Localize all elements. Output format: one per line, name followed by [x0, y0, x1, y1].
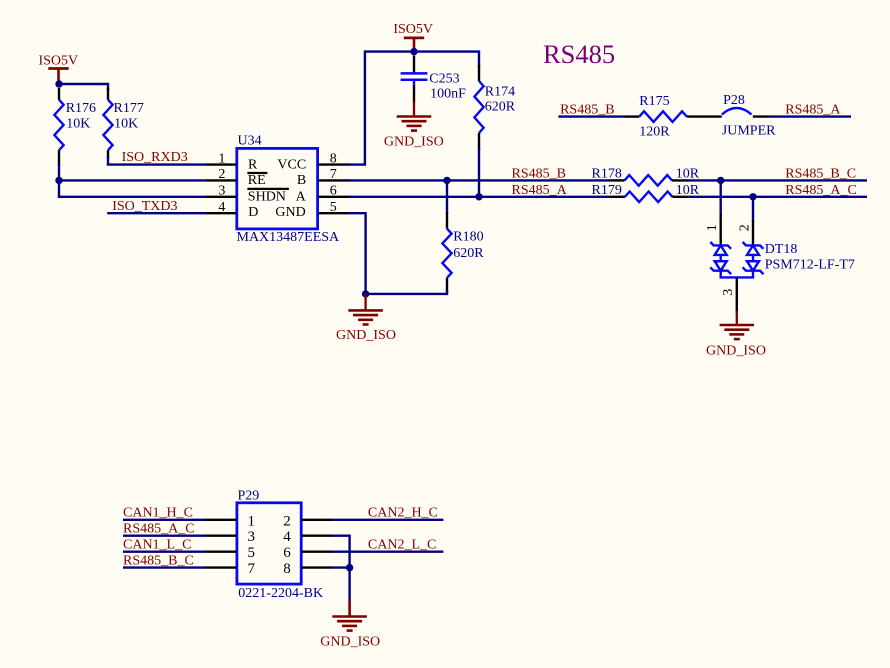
pin 7 (P29) — [206, 566, 237, 568]
wire ISO5V to R176/R177 — [59, 83, 108, 90]
TVS diode DT18 pin 3 lead — [736, 277, 738, 313]
svg-text:ISO5V: ISO5V — [38, 54, 78, 69]
svg-text:RS485: RS485 — [543, 39, 615, 69]
wire R174 down to RS485_A line — [478, 148, 480, 197]
svg-text:8: 8 — [283, 561, 291, 577]
svg-text:CAN2_L_C: CAN2_L_C — [368, 538, 436, 553]
TVS diode DT18 column B — [743, 242, 764, 249]
svg-text:6: 6 — [283, 545, 291, 561]
svg-text:10R: 10R — [676, 183, 700, 198]
svg-text:GND_ISO: GND_ISO — [336, 328, 396, 343]
svg-text:P29: P29 — [238, 489, 260, 504]
svg-text:VCC: VCC — [277, 157, 306, 172]
svg-text:A: A — [296, 189, 307, 204]
svg-text:3: 3 — [721, 289, 736, 296]
svg-text:R177: R177 — [114, 101, 144, 116]
svg-text:ISO_TXD3: ISO_TXD3 — [112, 199, 177, 214]
svg-text:10K: 10K — [114, 116, 138, 131]
svg-text:7: 7 — [330, 167, 337, 182]
svg-text:6: 6 — [330, 184, 337, 199]
TVS diode DT18 pin 2 lead — [752, 220, 754, 245]
wire P29 pin 6 to CAN2_L_C — [333, 551, 443, 553]
wire RS485_B_C to DT18 pin 1 — [720, 180, 722, 216]
svg-text:100nF: 100nF — [430, 86, 466, 101]
capacitor C253 — [401, 56, 428, 104]
svg-text:C253: C253 — [429, 72, 459, 87]
ground GND_ISO (under U34) — [336, 294, 396, 343]
svg-text:10K: 10K — [66, 116, 90, 131]
wire pin 6 RS485_A bus — [348, 196, 609, 198]
svg-text:3: 3 — [248, 529, 256, 545]
wire ISO_TXD3 to pin 4 — [107, 212, 205, 214]
svg-text:1: 1 — [218, 151, 225, 166]
svg-text:RS485_B: RS485_B — [512, 166, 566, 181]
svg-text:U34: U34 — [238, 134, 262, 149]
pin 5 (P29) — [206, 551, 237, 553]
wire junction down to pin 3 — [58, 180, 206, 196]
wire CAN1_H_C to P29 pin 1 — [123, 519, 206, 521]
pin 4 (P29) — [301, 535, 333, 537]
svg-text:ISO5V: ISO5V — [393, 22, 433, 37]
wire pin 5 to ground rail — [348, 212, 365, 294]
junction node at R176/R177 top — [55, 80, 62, 87]
svg-text:CAN2_H_C: CAN2_H_C — [368, 506, 438, 521]
svg-text:R174: R174 — [485, 85, 515, 100]
wire junction to pin 2 — [59, 179, 205, 181]
junction node R180 tap on RS485_B — [443, 177, 450, 184]
pin 8 — [318, 163, 350, 165]
svg-text:R178: R178 — [592, 166, 622, 181]
svg-text:RS485_B_C: RS485_B_C — [123, 553, 194, 568]
svg-text:5: 5 — [330, 200, 337, 215]
wire RS485_B to R180 — [446, 180, 448, 214]
resistor R180 — [442, 212, 451, 292]
wire P29 pin 4 to ground rail — [333, 535, 349, 602]
pin 2 — [205, 179, 236, 181]
pin 7 — [318, 179, 350, 181]
pin 6 — [318, 196, 350, 198]
resistor R177 — [103, 88, 112, 158]
svg-text:0221-2204-BK: 0221-2204-BK — [238, 586, 323, 601]
junction node DT18 pin1 tap — [717, 177, 724, 184]
jumper P28 — [722, 108, 769, 117]
junction node at pin 2 wire — [55, 177, 62, 184]
svg-text:GND: GND — [275, 205, 305, 220]
resistor R174 — [474, 65, 483, 150]
svg-text:R175: R175 — [639, 94, 669, 109]
wire RS485_A_C to P29 pin 3 — [123, 535, 206, 537]
resistor R176 — [54, 88, 63, 166]
svg-text:RS485_A_C: RS485_A_C — [123, 522, 195, 537]
svg-text:JUMPER: JUMPER — [722, 124, 776, 139]
svg-text:RS485_A: RS485_A — [785, 103, 841, 118]
junction node DT18 pin2 tap — [749, 193, 756, 200]
TVS diode DT18 bottom rail — [720, 271, 755, 278]
svg-text:GND_ISO: GND_ISO — [706, 344, 766, 359]
svg-text:SHDN: SHDN — [248, 189, 286, 204]
svg-text:8: 8 — [330, 151, 337, 166]
junction node ground rail — [362, 290, 369, 297]
svg-text:4: 4 — [283, 529, 291, 545]
wire R177 to pin 1 (ISO_RXD3) — [107, 156, 206, 165]
junction node P29 ground — [346, 564, 353, 571]
pin 3 (P29) — [206, 535, 237, 537]
wire P29 pin 8 to ground rail — [333, 566, 349, 568]
svg-text:R: R — [248, 157, 258, 172]
power port ISO5V (left) — [38, 54, 78, 83]
wire ISO5V rail to R174 — [414, 50, 479, 67]
wire R180 to ground rail — [366, 290, 449, 294]
svg-text:2: 2 — [218, 167, 225, 182]
resistor R179 — [609, 192, 688, 203]
svg-text:620R: 620R — [485, 99, 516, 114]
svg-text:10R: 10R — [676, 166, 700, 181]
wire RS485_B_C to P29 pin 7 — [123, 566, 206, 568]
TVS diode DT18 column A — [710, 242, 731, 249]
svg-text:2: 2 — [737, 224, 752, 231]
svg-text:ISO_RXD3: ISO_RXD3 — [122, 150, 188, 165]
svg-text:GND_ISO: GND_ISO — [384, 134, 444, 149]
svg-text:3: 3 — [218, 184, 225, 199]
overbar of SHDN — [247, 188, 289, 190]
svg-text:1: 1 — [248, 513, 256, 529]
svg-text:PSM712-LF-T7: PSM712-LF-T7 — [765, 257, 855, 272]
pin 4 — [205, 212, 236, 214]
junction node R174 tap on RS485_A — [475, 193, 482, 200]
wire R178 to RS485_B_C — [689, 179, 868, 181]
svg-text:R180: R180 — [453, 229, 483, 244]
pin 5 — [318, 212, 350, 214]
svg-text:GND_ISO: GND_ISO — [320, 634, 380, 649]
svg-text:DT18: DT18 — [765, 242, 798, 257]
wire RS485_B stub to R175 — [558, 115, 625, 117]
svg-text:P28: P28 — [723, 93, 745, 108]
ground GND_ISO (under C253) — [384, 101, 444, 149]
wire jumper to RS485_A stub — [769, 115, 851, 117]
svg-text:4: 4 — [218, 200, 225, 215]
wire R176 to pin 2 — [58, 164, 60, 180]
svg-text:CAN1_H_C: CAN1_H_C — [123, 506, 193, 521]
wire pin 7 RS485_B bus — [348, 179, 609, 181]
svg-text:RS485_B: RS485_B — [560, 103, 614, 118]
wire RS485_A_C to DT18 pin 2 — [752, 197, 754, 222]
svg-text:CAN1_L_C: CAN1_L_C — [123, 538, 191, 553]
pin 1 (P29) — [206, 519, 237, 521]
wire R179 to RS485_A_C — [689, 196, 867, 198]
pin 2 (P29) — [301, 519, 333, 521]
pin 1 — [205, 163, 236, 165]
wire ISO5V rail to pin 8 — [348, 50, 414, 164]
svg-text:RS485_A_C: RS485_A_C — [785, 183, 857, 198]
svg-text:MAX13487EESA: MAX13487EESA — [237, 230, 341, 245]
svg-text:120R: 120R — [639, 124, 670, 139]
ground GND_ISO (under DT18) — [706, 311, 766, 359]
resistor R175 — [625, 111, 722, 122]
pin 8 (P29) — [301, 566, 333, 568]
svg-text:R176: R176 — [66, 101, 96, 116]
pin 6 (P29) — [301, 551, 333, 553]
power port ISO5V (middle) — [393, 22, 433, 50]
TVS diode DT18 pin 1 lead — [720, 214, 722, 245]
pin 3 — [205, 196, 236, 198]
svg-text:1: 1 — [705, 224, 720, 231]
svg-text:5: 5 — [248, 545, 256, 561]
svg-text:7: 7 — [248, 561, 256, 577]
svg-text:R179: R179 — [592, 183, 622, 198]
junction node ISO5V rail — [410, 48, 417, 55]
op-amp/IC U34 MAX13487EESA body — [237, 148, 318, 229]
wire CAN1_L_C to P29 pin 5 — [123, 551, 206, 553]
svg-text:RS485_A: RS485_A — [512, 183, 568, 198]
resistor R178 — [609, 175, 689, 186]
svg-text:620R: 620R — [453, 246, 484, 261]
ground GND_ISO (under P29) — [320, 601, 380, 650]
svg-text:D: D — [248, 205, 258, 220]
svg-text:RS485_B_C: RS485_B_C — [785, 166, 856, 181]
svg-text:2: 2 — [283, 513, 291, 529]
overbar of RE — [247, 172, 267, 174]
wire P29 pin 2 to CAN2_H_C — [333, 519, 443, 521]
connector P29 body — [237, 503, 301, 584]
svg-text:B: B — [297, 173, 306, 188]
svg-text:RE: RE — [248, 173, 266, 188]
